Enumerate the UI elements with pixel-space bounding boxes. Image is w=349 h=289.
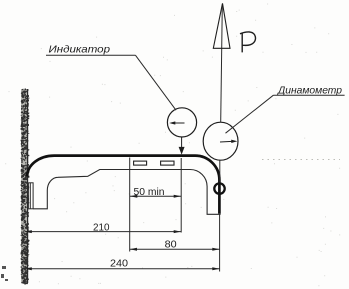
svg-text:80: 80	[165, 240, 177, 251]
dim 50 min line	[130, 195, 181, 197]
mounting flange plate	[29, 183, 33, 209]
extension line at x219.7	[219, 215, 221, 272]
leader line to indicator	[136, 55, 177, 110]
letter P (force label)	[240, 32, 255, 53]
handle inner profile	[33, 170, 220, 215]
underline for Динамометр	[273, 94, 344, 96]
leader line to dynamometer	[226, 95, 274, 133]
extension line at x130	[129, 158, 131, 252]
svg-text:210: 210	[93, 223, 110, 234]
attachment ring on handle leg	[214, 183, 224, 193]
faint scan dotted line right	[262, 159, 340, 161]
svg-text:50 min: 50 min	[134, 187, 165, 198]
underline for Индикатор	[46, 54, 136, 56]
svg-text:Динамометр: Динамометр	[277, 84, 342, 96]
dim 80 line	[130, 248, 220, 250]
force arrowhead (outlined)	[213, 3, 230, 48]
wall (hatched mounting surface)	[21, 89, 30, 285]
indicator probe line with arrow onto handle	[181, 137, 183, 149]
slot 1 on handle	[134, 161, 147, 165]
extension line at x181	[180, 158, 182, 233]
handle outer profile (thick tube line)	[27, 156, 219, 214]
force line from arrow down to dynamometer	[221, 5, 223, 123]
slot 2 on handle	[161, 161, 174, 165]
indicator needle (arrow pointing left)	[173, 122, 185, 124]
dynamometer circle	[203, 122, 238, 160]
svg-text:Индикатор: Индикатор	[49, 43, 111, 55]
dim 210 line	[25, 231, 182, 233]
indicator gauge circle	[167, 108, 196, 137]
dynamometer needle (arrow pointing right)	[220, 140, 232, 143]
scan mark bottom-left	[1, 266, 8, 281]
dim 240 line	[25, 268, 220, 270]
string from dynamometer to ring	[219, 160, 221, 183]
svg-text:240: 240	[110, 258, 128, 269]
